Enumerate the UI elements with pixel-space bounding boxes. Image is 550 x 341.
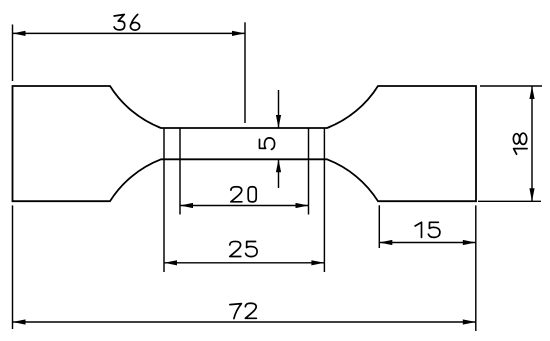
dim 18 dimension line: [531, 86, 533, 201]
dim 18 top arrowhead: [529, 86, 534, 99]
dim label 5 (rotated): [260, 138, 275, 150]
gauge mark / extension line (20 left): [179, 128, 181, 215]
dim 18 bottom arrowhead: [529, 188, 534, 201]
dim label 25: [230, 241, 257, 256]
dim 20 dimension line: [180, 205, 309, 207]
dim 72 left arrowhead: [13, 319, 26, 324]
dim 72 right extension line: [475, 205, 477, 331]
dim 36 left extension line: [12, 25, 14, 82]
dim 72 left extension line: [12, 205, 14, 329]
dim 72 right arrowhead: [463, 319, 476, 324]
dim label 72: [230, 303, 257, 318]
dim 36 left arrowhead: [13, 31, 26, 36]
dim 15 left arrowhead: [379, 240, 392, 245]
dim 15 left extension line: [378, 205, 380, 248]
dim 18 top extension line: [480, 85, 542, 87]
dim 15 right arrowhead: [463, 240, 476, 245]
dim 20 right arrowhead: [296, 203, 309, 208]
dim 5 lower leader line: [278, 159, 280, 188]
dim 72 dimension line: [13, 321, 476, 323]
dim 36 dimension line: [13, 32, 246, 34]
dim 18 bottom extension line: [478, 200, 541, 202]
gauge mark / extension line (25 left): [163, 128, 165, 272]
dim label 18 (rotated): [513, 133, 527, 154]
dim 25 dimension line: [164, 262, 324, 264]
dim 25 right arrowhead: [311, 260, 324, 265]
dim 20 left arrowhead: [180, 203, 193, 208]
dim label 15: [415, 222, 440, 237]
gauge mark / extension line (25 right): [323, 128, 325, 272]
dim 25 left arrowhead: [164, 260, 177, 265]
dim 36 right arrowhead: [232, 31, 245, 36]
dim 5 upper arrowhead: [276, 115, 281, 128]
dim 15 dimension line: [379, 242, 476, 244]
dim 5 upper leader line: [278, 90, 280, 128]
specimen outline (dog-bone tensile bar): [13, 86, 477, 201]
dim 36 right extension line: [244, 22, 246, 123]
gauge mark / extension line (20 right): [308, 128, 310, 215]
dim 5 lower arrowhead: [276, 159, 281, 172]
dim label 36: [114, 14, 139, 30]
dim label 20: [231, 187, 256, 202]
